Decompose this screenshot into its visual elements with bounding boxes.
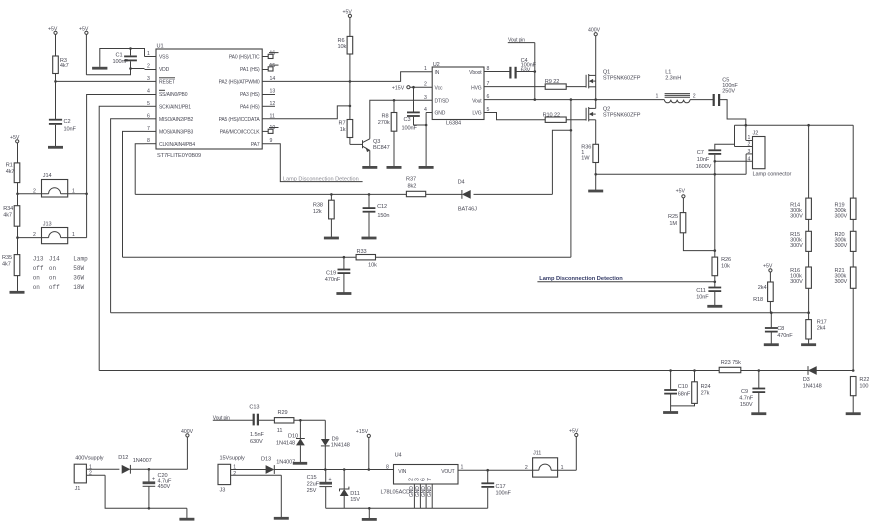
svg-text:BC847: BC847 <box>373 145 390 151</box>
diode D4 BAT46J <box>458 180 477 213</box>
svg-text:PA4 (HS): PA4 (HS) <box>240 104 260 110</box>
svg-text:PA1 (HS): PA1 (HS) <box>240 67 260 73</box>
ground below R35 <box>10 291 25 294</box>
svg-text:R37: R37 <box>406 177 416 183</box>
wire U1 pin8 to R37 line <box>135 144 144 195</box>
svg-text:C13: C13 <box>249 405 259 411</box>
svg-text:3: 3 <box>147 76 150 82</box>
svg-text:1: 1 <box>233 465 236 471</box>
wire J3 pin2 to ground <box>274 475 289 518</box>
zener diode D11 15V <box>340 468 361 508</box>
svg-text:on: on <box>49 275 57 282</box>
capacitor C15 22uF 25V <box>307 470 332 509</box>
connector J2 lamp <box>731 131 791 178</box>
capacitor C7 10nF 1600V <box>696 125 735 250</box>
svg-text:GND: GND <box>415 486 421 497</box>
400V flag at Q1 drain <box>588 28 601 76</box>
svg-text:2: 2 <box>147 64 150 70</box>
op-amp U1 microcontroller ST7FLITE box <box>156 44 262 160</box>
svg-text:GND: GND <box>427 486 433 497</box>
resistor R33 10k <box>356 249 377 268</box>
svg-text:2: 2 <box>233 471 236 477</box>
svg-text:2.3mH: 2.3mH <box>665 75 681 81</box>
svg-text:450V: 450V <box>158 484 171 490</box>
svg-text:C19: C19 <box>326 270 336 276</box>
wire feedback line2 AIN2 <box>111 311 809 314</box>
regulator U4 L78L05ACD box <box>381 453 464 496</box>
ground below D10 <box>293 462 307 465</box>
resistor R36 1 1W <box>581 144 598 190</box>
resistor R16 100k 300V <box>790 251 811 319</box>
svg-text:Vout: Vout <box>472 99 482 105</box>
svg-text:on: on <box>49 265 57 272</box>
svg-text:R22: R22 <box>859 377 869 383</box>
svg-text:Lamp Disconnection Detection: Lamp Disconnection Detection <box>283 177 359 183</box>
capacitor C13 1.5nF 630V <box>249 405 274 445</box>
svg-text:U4: U4 <box>395 453 402 459</box>
svg-text:1N4148: 1N4148 <box>276 441 295 447</box>
resistor R7 1k <box>339 106 353 144</box>
wire U1 pin4 to J14/J13 pin1 <box>85 95 144 238</box>
svg-text:15Vsupply: 15Vsupply <box>220 455 246 461</box>
svg-text:PA3 (HS): PA3 (HS) <box>240 92 260 98</box>
svg-text:7: 7 <box>147 126 150 132</box>
svg-text:MOSI/AIN3/PB3: MOSI/AIN3/PB3 <box>159 130 194 136</box>
ground below R36 <box>588 190 603 193</box>
svg-text:+5V: +5V <box>676 189 686 195</box>
svg-text:D13: D13 <box>261 456 271 462</box>
U1 pin 15 stub and ICC pad <box>262 63 278 71</box>
transistor Q2 STP5NK60ZFP <box>586 106 641 144</box>
svg-text:15V: 15V <box>350 497 360 503</box>
wire feedback line3 AIN1 <box>99 369 854 372</box>
resistor R35 4k7 <box>2 238 20 292</box>
wire U1 pin11 PA5 to R6/R7 node <box>262 106 350 119</box>
capacitor C11 10nF <box>696 288 721 306</box>
capacitor C12 150n <box>363 194 390 237</box>
svg-text:D3: D3 <box>803 377 810 383</box>
svg-text:3: 3 <box>748 149 751 155</box>
svg-text:D12: D12 <box>118 455 128 461</box>
jumper J14 <box>18 173 87 197</box>
svg-text:630V: 630V <box>250 439 263 445</box>
capacitor C8 470nF <box>765 313 793 344</box>
U1 pin 4 stub <box>145 89 157 95</box>
svg-text:6: 6 <box>147 113 150 119</box>
svg-text:R8: R8 <box>382 114 389 120</box>
U1 pin 5 stub <box>145 101 157 107</box>
svg-text:2: 2 <box>33 232 36 238</box>
U2 pin 8 number <box>487 66 490 72</box>
ground below C9 <box>751 412 766 415</box>
capacitor C1 100nF <box>113 47 137 70</box>
svg-text:C3: C3 <box>404 117 411 123</box>
svg-text:VOUT: VOUT <box>441 469 454 475</box>
node J13 pin2 tap <box>16 236 19 239</box>
ground below R22 <box>846 412 861 415</box>
svg-text:PA6/MCO/ICCCLK: PA6/MCO/ICCCLK <box>220 130 261 136</box>
svg-text:300V: 300V <box>790 213 803 219</box>
svg-text:Lamp connector: Lamp connector <box>753 171 792 177</box>
svg-text:1: 1 <box>72 232 75 238</box>
net label Lamp Disconnection Detection (blue) <box>537 276 714 282</box>
svg-text:4: 4 <box>147 89 150 95</box>
+5V flag at R1 <box>10 135 20 163</box>
svg-text:R29: R29 <box>278 410 288 416</box>
svg-text:4k7: 4k7 <box>3 212 12 218</box>
svg-text:L78L05ACD: L78L05ACD <box>381 489 411 495</box>
svg-text:ST7FLITE0Y0B09: ST7FLITE0Y0B09 <box>157 153 201 159</box>
svg-text:11: 11 <box>277 428 283 434</box>
U1 pin 9 stub <box>270 138 273 144</box>
svg-text:300V: 300V <box>790 243 803 249</box>
ground below C11 <box>707 305 722 308</box>
svg-text:1: 1 <box>72 188 75 194</box>
svg-text:250V: 250V <box>722 88 735 94</box>
svg-text:3: 3 <box>415 478 421 481</box>
svg-text:2: 2 <box>33 188 36 194</box>
svg-text:4: 4 <box>748 157 751 163</box>
svg-text:270k: 270k <box>378 120 390 126</box>
svg-text:D4: D4 <box>458 180 465 186</box>
svg-text:R34: R34 <box>3 206 13 212</box>
resistor R22 100 <box>850 377 869 413</box>
svg-text:C15: C15 <box>307 475 317 481</box>
wire Q3 collector to U2 DT/SD <box>370 100 432 139</box>
resistor R17 2k4 <box>806 319 827 343</box>
+5V flag at J11 <box>569 428 579 470</box>
+15V flag at U4 VIN <box>356 429 371 471</box>
capacitor C4 100nF 63V <box>484 58 537 79</box>
ground below C19 <box>336 292 351 295</box>
wire U1 pin7 to R33 line <box>123 131 145 257</box>
diode D10 1N4148 <box>276 420 305 462</box>
ground below bus <box>362 518 377 521</box>
svg-text:on: on <box>33 275 41 282</box>
svg-text:10nF: 10nF <box>696 295 709 301</box>
svg-text:16: 16 <box>270 50 276 56</box>
svg-text:R24: R24 <box>701 384 711 390</box>
wire RESET net: R3 to U1 pin3 <box>54 80 144 83</box>
svg-text:1: 1 <box>561 465 564 471</box>
diode D13 1N4007 <box>261 456 394 474</box>
U1 pin 6 stub <box>145 113 157 119</box>
svg-text:PA5 (HS)/ICCDATA: PA5 (HS)/ICCDATA <box>219 117 261 123</box>
U2 pin 4 number <box>424 107 432 166</box>
resistor R37 8k2 <box>406 177 426 197</box>
svg-text:R7: R7 <box>339 120 346 126</box>
svg-text:1: 1 <box>424 66 427 72</box>
resistor R25 1M <box>668 213 716 252</box>
svg-text:4.7nF: 4.7nF <box>739 396 753 402</box>
svg-text:22uF: 22uF <box>307 481 320 487</box>
wire J1 pin2 to ground rail <box>105 475 187 508</box>
svg-text:L6384: L6384 <box>446 121 461 127</box>
svg-text:C8: C8 <box>777 326 784 332</box>
svg-text:1: 1 <box>656 94 659 100</box>
U2 pin 6 number <box>487 94 490 100</box>
svg-text:2: 2 <box>693 94 696 100</box>
resistor R14 300k 300V <box>790 125 811 219</box>
svg-text:1: 1 <box>748 135 751 141</box>
svg-text:12k: 12k <box>313 209 322 215</box>
jumper J13 <box>18 221 87 243</box>
diode D12 1N4007 <box>118 455 187 474</box>
svg-text:100: 100 <box>859 384 868 390</box>
svg-text:7: 7 <box>427 478 433 481</box>
svg-text:+: + <box>329 477 332 483</box>
resistor R9 22 <box>545 79 586 89</box>
capacitor C2 10nF <box>49 81 77 146</box>
resistor R24 27k <box>671 371 711 406</box>
svg-text:D9: D9 <box>332 436 339 442</box>
svg-text:U2: U2 <box>433 62 440 68</box>
svg-text:SCK/AIN1/PB1: SCK/AIN1/PB1 <box>159 104 191 110</box>
svg-text:100nF: 100nF <box>402 126 418 132</box>
wire U4 VOUT to J11 <box>458 469 533 472</box>
svg-text:3: 3 <box>424 95 427 101</box>
svg-text:STP5NK60ZFP: STP5NK60ZFP <box>603 112 641 118</box>
svg-text:68nF: 68nF <box>678 392 691 398</box>
svg-text:R35: R35 <box>2 255 12 261</box>
svg-text:63V: 63V <box>521 68 531 74</box>
svg-text:+15V: +15V <box>356 429 369 435</box>
svg-text:CLKIN/AIN4/PB4: CLKIN/AIN4/PB4 <box>159 142 195 148</box>
svg-text:27k: 27k <box>701 391 710 397</box>
+5V flag at R18 <box>763 264 773 282</box>
+5V flag at R25 <box>676 189 686 213</box>
capacitor C3 100nF <box>402 86 428 132</box>
wire HVG to R9 <box>484 86 545 88</box>
resistor R8 270k <box>378 99 397 166</box>
svg-text:J3: J3 <box>220 488 226 494</box>
svg-text:1M: 1M <box>669 221 677 227</box>
U1 pin 2 stub <box>145 64 157 70</box>
svg-text:36W: 36W <box>73 275 84 282</box>
svg-text:Vcc: Vcc <box>435 85 444 91</box>
svg-text:58W: 58W <box>73 265 84 272</box>
ground below C12 <box>362 237 377 240</box>
wire U1 pin14 PA2 to U2 IN <box>262 72 432 82</box>
svg-text:LVG: LVG <box>472 111 481 117</box>
svg-text:J2: J2 <box>753 131 759 137</box>
resistor R29 11 <box>274 410 325 434</box>
svg-text:1: 1 <box>89 464 92 470</box>
svg-text:BAT46J: BAT46J <box>458 207 477 213</box>
resistor R20 300k 300V <box>835 219 857 251</box>
svg-text:4k7: 4k7 <box>60 63 69 69</box>
resistor R1 4k7 <box>6 162 20 194</box>
ground below VSS rail <box>92 67 107 70</box>
svg-text:U1: U1 <box>157 44 164 50</box>
resistor R6 10k <box>338 36 353 107</box>
svg-text:RESET: RESET <box>159 80 175 86</box>
svg-text:C1: C1 <box>116 52 123 58</box>
svg-text:R38: R38 <box>313 203 323 209</box>
resistor R10 22 <box>543 112 587 122</box>
svg-text:VSS: VSS <box>159 55 169 61</box>
svg-text:6: 6 <box>421 478 427 481</box>
svg-text:R9 22: R9 22 <box>545 79 559 85</box>
capacitor C19 470nF <box>325 257 351 292</box>
resistor R19 300k 300V <box>835 125 857 219</box>
svg-text:1W: 1W <box>581 156 590 162</box>
U1 pin 8 stub <box>145 138 157 144</box>
svg-text:R1: R1 <box>6 162 13 168</box>
resistor R21 300k 300V <box>835 251 857 370</box>
svg-text:R25: R25 <box>668 214 678 220</box>
ground below U2 GND <box>419 166 434 169</box>
svg-text:DT/SD: DT/SD <box>435 99 450 105</box>
svg-text:C11: C11 <box>696 288 706 294</box>
net label Vout pin (bottom) <box>213 415 254 421</box>
transistor Q3 BC847 <box>350 139 390 167</box>
svg-text:R33: R33 <box>357 249 367 255</box>
+15V flag at U2 Vcc <box>392 86 432 92</box>
U1 pin 14 stub <box>270 76 276 82</box>
svg-text:SS/AIN0/PB0: SS/AIN0/PB0 <box>159 92 188 98</box>
+5V flag at R6 <box>343 10 353 37</box>
+5V flag at R3 <box>48 27 58 57</box>
resistor R34 4k7 <box>3 194 20 238</box>
svg-text:PA0 (HS)/LTIC: PA0 (HS)/LTIC <box>229 55 260 61</box>
svg-text:C17: C17 <box>496 484 506 490</box>
U1 pin 11 stub <box>270 113 275 119</box>
lamp selection table <box>33 255 88 291</box>
svg-text:8k2: 8k2 <box>408 184 417 190</box>
svg-text:25V: 25V <box>307 488 317 494</box>
svg-text:4k7: 4k7 <box>6 169 15 175</box>
svg-text:C2: C2 <box>64 119 71 125</box>
svg-text:18W: 18W <box>73 284 84 291</box>
svg-text:C10: C10 <box>678 384 688 390</box>
svg-text:R10 22: R10 22 <box>543 112 560 118</box>
wire +5V to VDD pin2 <box>86 69 144 75</box>
op-amp U2 driver L6384 box <box>432 62 484 127</box>
Vout pin net label (top) <box>508 38 536 101</box>
svg-text:10nF: 10nF <box>697 157 710 163</box>
svg-text:IN: IN <box>435 70 440 76</box>
wire lamp hot line <box>735 124 854 127</box>
svg-text:J13: J13 <box>43 221 52 227</box>
svg-text:2k4: 2k4 <box>817 325 826 331</box>
resistor R15 300k 300V <box>790 219 811 251</box>
connector J3 15Vsupply <box>218 455 281 493</box>
transistor Q1 STP5NK60ZFP <box>586 69 641 107</box>
node J14 pin2 tap <box>16 193 19 196</box>
svg-text:2: 2 <box>748 142 751 148</box>
capacitor C10 68nF <box>664 371 691 412</box>
svg-text:10k: 10k <box>338 44 347 50</box>
capacitor C9 4.7nF 150V <box>739 371 765 413</box>
diode D9 1N4148 <box>321 420 350 471</box>
U1 pin 13 stub <box>262 89 275 95</box>
U1 pin 16 stub and ICC pad <box>262 50 278 58</box>
wire U1 pin9 PA7 lamp detection stub <box>262 144 362 182</box>
U1 pin names right <box>219 55 261 148</box>
wire J2 pin3 to lamp return <box>745 154 747 174</box>
svg-text:off: off <box>33 265 44 272</box>
svg-text:+15V: +15V <box>392 86 405 92</box>
wire U1 pin5 to feedback line3 <box>99 106 144 370</box>
ground for 400V block <box>179 508 194 519</box>
diode D3 1N4148 <box>803 366 822 389</box>
connector J1 400Vsupply <box>74 456 119 492</box>
svg-text:PA2 (HS)/ATPWM0: PA2 (HS)/ATPWM0 <box>219 80 260 86</box>
capacitor C5 100nF 250V <box>714 77 746 140</box>
svg-text:Vboot: Vboot <box>469 70 482 76</box>
svg-text:VIN: VIN <box>398 469 406 475</box>
svg-text:GND: GND <box>421 486 427 497</box>
400V flag at C20 <box>181 429 194 469</box>
svg-text:300V: 300V <box>835 213 848 219</box>
svg-text:8: 8 <box>386 464 389 470</box>
U1 pin 1 stub <box>145 51 157 57</box>
svg-text:12: 12 <box>270 101 276 107</box>
svg-text:PA7: PA7 <box>251 142 260 148</box>
svg-text:R26: R26 <box>721 257 731 263</box>
svg-text:MISO/AIN2/PB2: MISO/AIN2/PB2 <box>159 117 194 123</box>
svg-text:5: 5 <box>147 101 150 107</box>
svg-text:VDD: VDD <box>159 67 170 73</box>
svg-text:R18: R18 <box>753 297 763 303</box>
svg-text:1600V: 1600V <box>696 164 712 170</box>
svg-text:1: 1 <box>461 464 464 470</box>
+5V flag at VDD <box>79 27 89 75</box>
U1 pin 12 stub <box>262 101 275 107</box>
svg-text:D11: D11 <box>350 491 360 497</box>
svg-text:J11: J11 <box>533 450 541 456</box>
svg-text:100nF: 100nF <box>496 490 512 496</box>
resistor R3 4k7 <box>53 56 69 81</box>
svg-text:D10: D10 <box>288 434 298 440</box>
svg-text:2k4: 2k4 <box>758 285 767 291</box>
jumper J11 <box>525 450 576 477</box>
svg-text:300V: 300V <box>790 279 803 285</box>
svg-text:C12: C12 <box>377 204 387 210</box>
svg-text:J13: J13 <box>33 255 44 262</box>
svg-text:C9: C9 <box>741 389 748 395</box>
svg-text:300V: 300V <box>835 279 848 285</box>
svg-text:J14: J14 <box>43 173 52 179</box>
wire lamp return line <box>596 173 746 176</box>
svg-text:1.5nF: 1.5nF <box>250 432 264 438</box>
svg-text:off: off <box>49 284 60 291</box>
capacitor C20 4.7uF 450V <box>143 468 172 510</box>
svg-text:400Vsupply: 400Vsupply <box>75 456 104 462</box>
ground below R17 <box>801 343 816 346</box>
svg-text:GND: GND <box>435 111 446 117</box>
svg-text:10nF: 10nF <box>64 127 77 133</box>
U2 pin 7 number <box>487 81 490 87</box>
U1 pin 10 stub and ICC pad <box>262 125 278 133</box>
capacitor C17 100nF <box>481 470 511 508</box>
svg-text:4k7: 4k7 <box>2 261 11 267</box>
svg-text:C7: C7 <box>697 150 704 156</box>
svg-text:1N4007: 1N4007 <box>276 460 295 466</box>
svg-text:150n: 150n <box>377 213 389 219</box>
svg-text:1N4007: 1N4007 <box>133 458 152 464</box>
U1 pin 3 stub <box>145 76 157 82</box>
svg-text:+: + <box>152 477 155 483</box>
wire LVG to R10 <box>484 113 545 120</box>
svg-text:10: 10 <box>270 125 276 131</box>
ground below R38 <box>324 237 339 240</box>
svg-text:R23 75k: R23 75k <box>721 360 741 366</box>
svg-text:on: on <box>33 284 41 291</box>
svg-text:300V: 300V <box>835 243 848 249</box>
svg-text:10k: 10k <box>721 264 730 270</box>
